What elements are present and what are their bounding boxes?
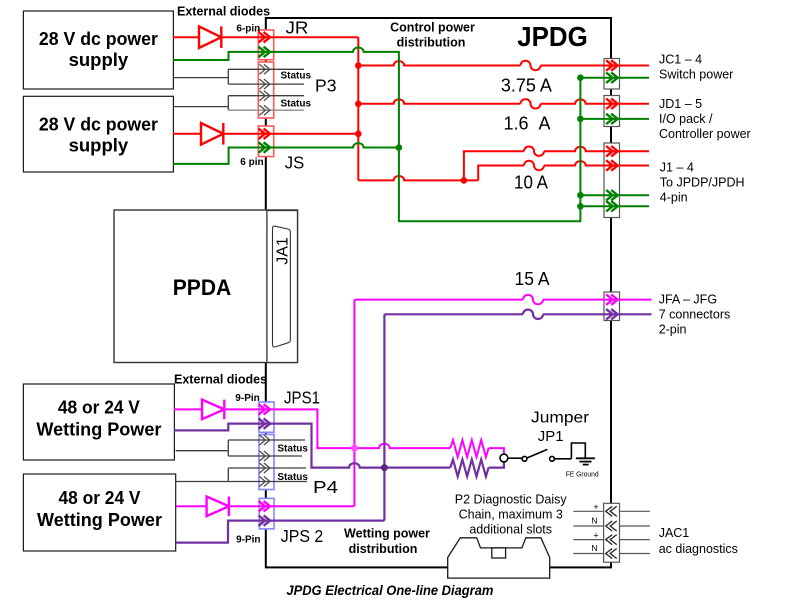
fuse 10 A lower xyxy=(524,161,544,170)
wire: PS1 green return, U-bus to right side (hop over red bus) xyxy=(173,48,580,222)
connector JPS1 box xyxy=(259,402,274,432)
svg-text:JPDG: JPDG xyxy=(517,21,588,52)
fuse 3.75 A xyxy=(521,61,541,70)
svg-text:JR: JR xyxy=(286,18,309,38)
pin chevron JAC1 pin 1 xyxy=(606,506,617,516)
pin chevron JFA purple xyxy=(606,309,618,319)
diode D3 (WP1 external diode) xyxy=(202,400,224,420)
junction dot red bus / JS feed xyxy=(355,131,362,138)
svg-text:N: N xyxy=(591,543,597,553)
junction dot green riser / JC stub xyxy=(577,74,584,81)
junction dot green riser / J1 stub 1 xyxy=(577,192,584,199)
svg-text:FE Ground: FE Ground xyxy=(566,469,599,478)
svg-text:9-Pin: 9-Pin xyxy=(236,535,260,546)
wire: JAC1 right stub 2 xyxy=(620,525,650,527)
svg-text:+: + xyxy=(593,530,598,540)
svg-text:7 connectors: 7 connectors xyxy=(659,307,731,321)
wire: WP1 magenta feed through JPS1, down to wetting bus (hop over purple) xyxy=(174,409,450,448)
svg-text:JD1 – 5: JD1 – 5 xyxy=(659,97,702,111)
svg-text:Status: Status xyxy=(281,70,312,81)
wire: 3.75A branch to JC (hop over green bus) xyxy=(358,61,649,65)
pin chevron JPS1 magenta xyxy=(259,404,271,414)
connector JA1 xyxy=(267,211,298,363)
wire: purple wetting bus vertical xyxy=(383,314,385,520)
junction dot red bus / 3.75A xyxy=(355,62,362,69)
48/24V wetting power box 2 xyxy=(23,474,175,551)
svg-text:48 or 24 V: 48 or 24 V xyxy=(59,487,142,508)
wire: red distribution bus vertical xyxy=(357,37,359,180)
pin chevron P4 status 4 xyxy=(259,477,270,487)
pin chevron P3 status 3 xyxy=(259,91,270,101)
status pair bracket P3 lower xyxy=(174,96,305,111)
pin chevron J1 green 2 xyxy=(606,201,618,211)
wire: J1 green pin 1 stub xyxy=(580,194,649,196)
wire: JAC1 left stub 3 xyxy=(573,539,603,541)
wire: JC green pin stub xyxy=(580,77,649,79)
connector JFA box xyxy=(604,292,620,321)
svg-text:6 pin: 6 pin xyxy=(240,157,263,168)
fuse 1.6 A xyxy=(521,99,541,108)
pin chevron JPS1 purple xyxy=(259,418,271,428)
wire: 15A purple branch to JFA xyxy=(384,313,651,315)
pin chevron P4 status 1 xyxy=(259,435,270,445)
svg-text:JC1 – 4: JC1 – 4 xyxy=(659,53,702,67)
svg-text:P2 Diagnostic Daisy: P2 Diagnostic Daisy xyxy=(455,493,568,507)
wire: JAC1 left stub 1 xyxy=(573,510,603,512)
connector P4 status box xyxy=(259,435,274,490)
svg-text:28 V dc power: 28 V dc power xyxy=(39,28,158,49)
FE ground symbol xyxy=(571,443,595,465)
svg-text:JPDG Electrical One-line Diagr: JPDG Electrical One-line Diagram xyxy=(286,582,493,598)
28V power supply box 1 xyxy=(23,11,173,89)
pin chevron J1 green 1 xyxy=(606,190,618,200)
wire: WP1 purple return through JPS1 down to bus (hop over magenta) xyxy=(174,424,450,468)
junction dot magenta bus xyxy=(351,445,358,452)
wire: magenta wetting bus vertical xyxy=(353,300,355,507)
wire: 10A riser 1 to J1 pin 1 (hop over green) xyxy=(464,147,649,181)
svg-text:External diodes: External diodes xyxy=(174,373,267,387)
svg-text:Status: Status xyxy=(277,443,308,454)
pin chevron J1 red 2 xyxy=(606,160,618,170)
svg-text:Switch power: Switch power xyxy=(659,68,733,82)
svg-text:6-pin: 6-pin xyxy=(236,24,260,35)
connector JC box xyxy=(604,59,620,90)
svg-text:3.75 A: 3.75 A xyxy=(501,76,552,96)
jumper JP1 switch xyxy=(500,449,571,462)
svg-text:PPDA: PPDA xyxy=(173,275,232,300)
svg-text:4-pin: 4-pin xyxy=(660,191,688,205)
fuse 10 A upper xyxy=(524,146,544,155)
junction dot green riser / JD stub xyxy=(577,116,584,123)
wire: WP2 magenta feed through JPS2 to bus xyxy=(176,505,354,507)
48/24V wetting power box 1 xyxy=(23,384,174,460)
wire: magenta lead to jumper xyxy=(489,448,504,454)
junction dot purple bus xyxy=(381,464,388,471)
pin chevron P4 status 3 xyxy=(259,463,270,473)
P2 diagnostic slot shape xyxy=(448,538,550,578)
resistor magenta (wetting jumper) xyxy=(450,440,488,457)
svg-text:supply: supply xyxy=(69,134,129,155)
wire: 15A magenta branch to JFA xyxy=(354,299,651,301)
pin chevron P3 status 1 xyxy=(259,64,270,74)
wire: JD green pin stub xyxy=(580,118,649,120)
junction dot 10A split xyxy=(461,177,468,184)
svg-text:Control power: Control power xyxy=(390,21,475,35)
svg-text:Controller power: Controller power xyxy=(659,127,751,141)
diode D2 (PS2 external diode) xyxy=(201,123,223,145)
28V power supply box 2 xyxy=(23,96,173,172)
pin chevron JFA magenta xyxy=(606,294,618,304)
diode D1 (PS1 external diode) xyxy=(199,26,221,48)
wire: PS2 red feed to JS xyxy=(173,133,358,135)
pin chevron P3 status 4 xyxy=(259,105,270,115)
svg-text:JA1: JA1 xyxy=(275,237,292,265)
svg-text:1.6 A: 1.6 A xyxy=(504,114,551,134)
wire: 10A branch lower run (hop over green bus) xyxy=(358,176,478,180)
pin chevron JR green xyxy=(259,47,271,57)
pin chevron JC red xyxy=(606,60,618,70)
status pair bracket P4 upper xyxy=(176,440,305,456)
connector J1 box xyxy=(604,143,620,218)
wire: JAC1 left stub 4 xyxy=(573,553,603,555)
wire: JAC1 left stub 2 xyxy=(573,525,603,527)
connector P3 status box xyxy=(258,62,273,118)
svg-text:Wetting Power: Wetting Power xyxy=(36,419,161,440)
svg-text:additional slots: additional slots xyxy=(469,523,552,537)
svg-text:P3: P3 xyxy=(315,76,337,96)
svg-text:JS: JS xyxy=(285,152,305,172)
pin chevron J1 red 1 xyxy=(606,146,618,156)
svg-text:48 or 24 V: 48 or 24 V xyxy=(58,397,141,418)
svg-text:Status: Status xyxy=(281,99,312,110)
svg-text:2-pin: 2-pin xyxy=(659,322,687,336)
diode D4 (WP2 external diode) xyxy=(207,497,229,517)
wire: J1 green pin 2 stub xyxy=(580,205,649,207)
pin chevron P3 status 2 xyxy=(259,79,270,89)
pin chevron JR red xyxy=(259,32,271,42)
pin chevron JD red xyxy=(606,99,618,109)
pin chevron JS green xyxy=(259,142,271,152)
connector JS box xyxy=(258,126,273,157)
pin chevron JPS2 magenta xyxy=(259,501,271,511)
svg-text:distribution: distribution xyxy=(349,542,418,556)
svg-text:Chain, maximum 3: Chain, maximum 3 xyxy=(459,508,563,522)
pin chevron JPS2 purple xyxy=(259,515,271,525)
pin chevron JD green xyxy=(606,114,618,124)
svg-text:JAC1: JAC1 xyxy=(659,526,690,540)
PPDA box xyxy=(114,210,298,363)
svg-text:Jumper: Jumper xyxy=(531,409,589,426)
wire: PS2 green return to JS and green bus (hop over red bus) xyxy=(173,143,399,164)
svg-text:JPS 2: JPS 2 xyxy=(281,526,324,546)
wire: JAC1 right stub 3 xyxy=(620,539,650,541)
wire: 10A riser 2 to J1 pin 2 (hop over green) xyxy=(478,161,649,180)
connector JR box xyxy=(258,30,273,60)
svg-text:supply: supply xyxy=(69,49,129,70)
svg-text:JP1: JP1 xyxy=(538,428,564,445)
connector JAC1 box xyxy=(604,503,620,562)
svg-text:ac diagnostics: ac diagnostics xyxy=(659,542,738,556)
svg-text:9-Pin: 9-Pin xyxy=(235,393,259,404)
wire: JAC1 right stub 1 xyxy=(620,510,650,512)
wire: purple lead to jumper xyxy=(489,462,504,468)
pin chevron JC green xyxy=(606,73,618,83)
connector JD box xyxy=(604,96,620,127)
svg-text:10 A: 10 A xyxy=(514,173,548,193)
wire: PS1 red feed to JR xyxy=(173,36,358,38)
resistor purple (wetting jumper) xyxy=(450,460,488,477)
svg-text:JPS1: JPS1 xyxy=(284,387,320,407)
wire: 1.6A branch to JD (hops over green buses) xyxy=(358,99,649,103)
JPDG enclosure border xyxy=(266,18,611,567)
svg-text:28 V dc power: 28 V dc power xyxy=(39,113,158,134)
svg-text:Status: Status xyxy=(277,472,308,483)
svg-text:N: N xyxy=(591,516,597,526)
fuse 15 A purple xyxy=(523,310,543,319)
junction dot green riser / J1 stub 2 xyxy=(577,203,584,210)
status pair bracket P4 lower xyxy=(176,468,307,482)
pin chevron JAC1 pin 4 xyxy=(606,549,617,559)
svg-text:Wetting power: Wetting power xyxy=(344,527,430,541)
pin chevron JS red xyxy=(259,129,271,139)
wire: WP2 purple return through JPS2 to bus xyxy=(176,521,384,543)
svg-text:J1 – 4: J1 – 4 xyxy=(660,161,694,175)
junction dot green bus / JS return xyxy=(396,144,403,151)
svg-text:Wetting Power: Wetting Power xyxy=(37,509,162,530)
wire: JAC1 right stub 4 xyxy=(620,553,650,555)
junction dot red bus / 1.6A xyxy=(355,101,362,108)
svg-text:distribution: distribution xyxy=(397,35,466,49)
svg-text:15 A: 15 A xyxy=(515,269,550,289)
pin chevron JAC1 pin 2 xyxy=(606,521,617,531)
svg-text:External diodes: External diodes xyxy=(177,5,270,19)
connector JPS2 box xyxy=(259,498,274,529)
pin chevron P4 status 2 xyxy=(259,451,270,461)
svg-text:To JPDP/JPDH: To JPDP/JPDH xyxy=(660,175,745,189)
status pair bracket P3 upper xyxy=(174,69,305,84)
svg-text:JFA – JFG: JFA – JFG xyxy=(659,292,717,306)
fuse 15 A magenta xyxy=(523,295,543,304)
svg-text:P4: P4 xyxy=(313,477,338,497)
svg-text:I/O pack /: I/O pack / xyxy=(659,112,713,126)
svg-text:+: + xyxy=(593,502,598,512)
pin chevron JAC1 pin 3 xyxy=(606,535,617,545)
